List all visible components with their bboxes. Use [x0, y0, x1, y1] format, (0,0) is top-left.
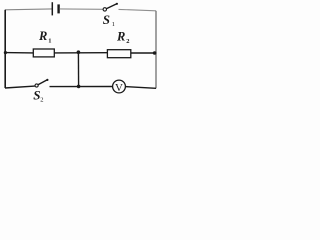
svg-text:S: S — [103, 12, 110, 27]
wire right edge — [155, 11, 157, 89]
junction dot at bottom of mid branch — [77, 85, 81, 89]
wire top-left (corner to battery) — [5, 8, 52, 11]
switch S1 blade — [106, 4, 117, 9]
wire middle branch: left edge to R1 — [5, 52, 33, 54]
wire R2 to right edge — [131, 52, 156, 54]
switch S1 pivot circle — [103, 8, 106, 11]
resistor R2 — [107, 50, 130, 58]
svg-text:1: 1 — [112, 21, 115, 28]
junction dot at right edge — [153, 51, 157, 55]
switch S1 blade tip — [116, 3, 118, 5]
battery short plate — [57, 4, 59, 13]
wire R1 to R2 — [54, 52, 107, 54]
battery long plate — [51, 2, 53, 15]
wire bottom-left (corner to switch S2) — [5, 86, 35, 88]
junction dot at left edge — [4, 51, 7, 54]
resistor R1 — [33, 49, 54, 57]
svg-text:1: 1 — [48, 38, 51, 45]
wire battery to switch S1 — [60, 8, 104, 10]
svg-text:2: 2 — [40, 97, 43, 104]
wire voltmeter to bottom-right corner — [125, 87, 156, 89]
svg-text:2: 2 — [126, 38, 129, 45]
switch S2 pivot circle — [35, 84, 38, 87]
voltmeter V circle — [113, 80, 126, 93]
switch S2 blade tip — [46, 79, 48, 81]
svg-text:R: R — [38, 29, 47, 43]
svg-text:V: V — [115, 82, 123, 94]
wire left edge — [4, 10, 6, 88]
switch S2 blade — [38, 80, 47, 85]
svg-text:R: R — [116, 29, 125, 43]
wire vertical mid branch — [77, 52, 79, 86]
wire switch S1 to top-right corner — [119, 9, 157, 10]
junction node between R1 and R2 — [77, 50, 81, 54]
wire switch S2 to voltmeter — [50, 86, 113, 88]
